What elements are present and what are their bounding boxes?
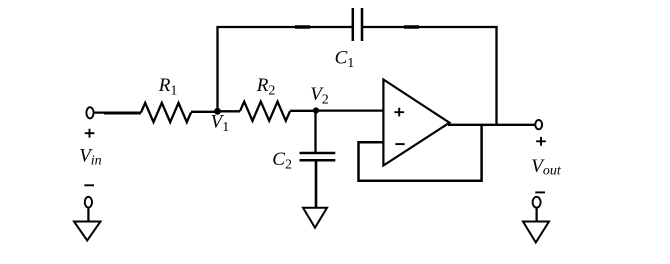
capacitor C2 [300, 153, 336, 160]
ground stem (input) [87, 208, 89, 222]
wire input to R1 [94, 111, 141, 113]
ground stem (output) [535, 208, 537, 222]
node V1 [214, 108, 221, 115]
resistor R2 [240, 102, 290, 121]
wire V2 to op-amp [316, 109, 383, 111]
wire thick overlap near input [104, 112, 141, 115]
svg-text:V2: V2 [310, 84, 329, 107]
svg-text:R2: R2 [256, 75, 276, 99]
svg-text:R1: R1 [158, 75, 178, 99]
ground (input) [74, 222, 101, 241]
resistor R1 [141, 103, 191, 122]
ground terminal circle (input) [85, 197, 92, 208]
output terminal [535, 120, 542, 129]
op-amp - input sign [395, 143, 404, 145]
svg-text:Vin: Vin [79, 146, 102, 169]
ground terminal circle (output) [533, 197, 541, 208]
svg-text:C1: C1 [335, 48, 355, 72]
ground (below C2) [303, 208, 327, 228]
node V2 [313, 107, 319, 113]
wire V1 to R2 [218, 110, 241, 112]
minus sign (Vin) [84, 184, 94, 186]
wire overlap thick segment right [404, 25, 419, 29]
wire V2 down to C2 [314, 111, 316, 153]
wire overlap thick segment [295, 25, 310, 29]
ground (output) [523, 222, 549, 243]
wire op-amp output [448, 124, 535, 126]
wire top right from C1 [363, 26, 498, 28]
svg-text:Vout: Vout [531, 156, 562, 179]
wire top left to C1 [216, 26, 351, 28]
capacitor C1 [353, 8, 362, 41]
svg-text:V1: V1 [211, 112, 230, 135]
minus sign (Vout) [535, 191, 545, 193]
wire V1 up [216, 27, 218, 111]
wire C2 to ground [315, 161, 318, 208]
svg-text:C2: C2 [272, 149, 292, 173]
input terminal [86, 107, 93, 118]
feedback wire to - input [359, 125, 482, 181]
op-amp U1 [383, 80, 449, 166]
wire R2 to V2 [290, 110, 316, 112]
op-amp + input sign [394, 108, 404, 117]
wire C1 down to output rail [495, 26, 497, 125]
plus sign (Vout) [536, 137, 546, 146]
plus sign (Vin) [85, 129, 95, 138]
wire R1 to V1 [191, 111, 218, 113]
